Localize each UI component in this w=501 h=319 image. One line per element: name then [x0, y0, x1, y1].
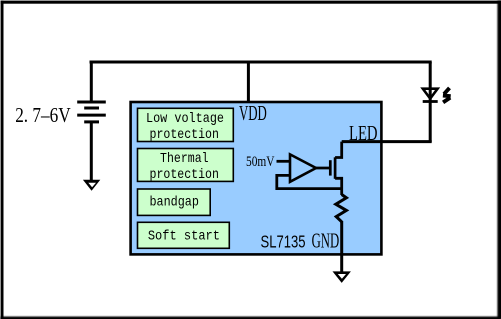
wire: feedback from - input to source node [277, 175, 342, 188]
label VDD (pin) [239, 103, 267, 125]
svg-text:2. 7–6V: 2. 7–6V [15, 103, 71, 127]
wire: resistor to GND pin [340, 221, 343, 272]
block: Thermal protection [138, 149, 234, 183]
label SL7135 [261, 232, 306, 252]
LED D1 [423, 89, 438, 102]
ground (battery) [83, 180, 100, 191]
wire: 50mV to op-amp + input [277, 160, 291, 163]
label 50mV [246, 154, 275, 170]
svg-text:Soft start: Soft start [148, 228, 220, 244]
wire: LED pin into IC (to Q1 drain) [342, 140, 432, 143]
svg-text:Thermal: Thermal [160, 151, 209, 167]
block: Soft start [138, 222, 230, 248]
resistor R1 (sense) [336, 195, 347, 222]
wire: op-amp output to gate [314, 167, 332, 170]
wire: battery top to top rail [90, 61, 93, 102]
light emission bolt [443, 88, 451, 103]
svg-text:50mV: 50mV [246, 154, 275, 170]
label GND (pin) [312, 231, 340, 253]
battery B1 [77, 102, 106, 122]
wire: battery negative to ground [90, 122, 93, 186]
op-amp U2 (error amplifier) [290, 154, 316, 181]
svg-text:protection: protection [150, 167, 219, 183]
svg-text:Low voltage: Low voltage [146, 111, 224, 127]
block: Low voltage protection [138, 108, 234, 143]
label 2.7-6V (battery voltage) [15, 103, 71, 127]
wire: top rail down through LED to LED pin wire [429, 62, 432, 142]
svg-text:SL7135: SL7135 [261, 232, 306, 252]
block: bandgap [138, 189, 211, 215]
IC block U1 SL7135 [131, 102, 382, 254]
svg-text:bandgap: bandgap [149, 194, 199, 210]
svg-text:GND: GND [312, 231, 340, 253]
ground (GND pin) [333, 271, 351, 283]
svg-text:VDD: VDD [239, 103, 267, 125]
label LED (pin) [349, 123, 378, 145]
svg-text:protection: protection [150, 127, 219, 143]
transistor Q1 (NMOS pass element) [330, 142, 341, 195]
wire: top rail [90, 61, 432, 64]
wire: VDD drop into IC [247, 62, 250, 103]
